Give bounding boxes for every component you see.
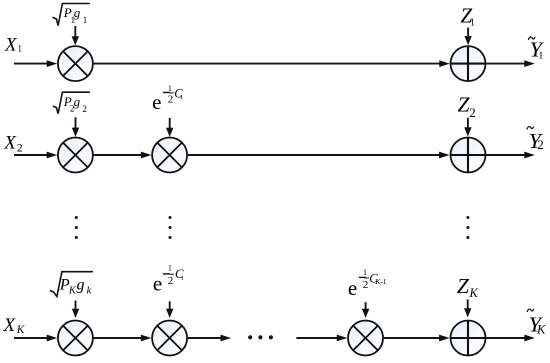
svg-text:1: 1	[181, 275, 184, 282]
svg-text:Z: Z	[457, 274, 470, 298]
svg-text:2: 2	[168, 275, 174, 287]
svg-text:X: X	[3, 315, 17, 336]
svg-text:g: g	[77, 277, 85, 294]
svg-text:1: 1	[470, 18, 475, 29]
svg-text:K: K	[469, 286, 479, 300]
svg-text:e: e	[348, 276, 357, 300]
svg-text:1: 1	[538, 51, 543, 62]
svg-text:2: 2	[363, 279, 369, 291]
svg-text:1: 1	[180, 94, 183, 101]
svg-text:1: 1	[363, 268, 367, 277]
svg-text:2: 2	[168, 93, 174, 105]
svg-text:-1: -1	[380, 277, 386, 286]
svg-text:2: 2	[17, 142, 23, 154]
svg-text:g: g	[74, 94, 81, 109]
svg-text:k: k	[87, 286, 92, 297]
svg-text:1: 1	[168, 84, 172, 93]
svg-text:g: g	[74, 5, 81, 20]
svg-text:2: 2	[537, 137, 544, 152]
svg-text:X: X	[3, 133, 17, 154]
svg-text:1: 1	[18, 44, 23, 54]
svg-text:1: 1	[83, 15, 88, 25]
svg-text:e: e	[153, 272, 162, 296]
svg-text:X: X	[4, 34, 18, 55]
svg-text:2: 2	[82, 104, 87, 114]
svg-text:K: K	[536, 323, 546, 337]
svg-text:2: 2	[469, 105, 476, 120]
svg-text:K: K	[16, 324, 26, 336]
svg-text:e: e	[152, 90, 161, 114]
svg-text:1: 1	[168, 264, 172, 273]
